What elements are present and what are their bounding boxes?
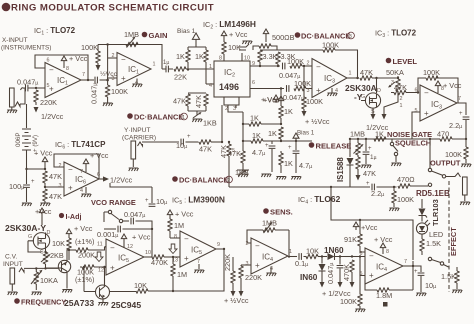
svg-text:91K: 91K	[344, 235, 357, 244]
svg-text:47K: 47K	[49, 172, 62, 181]
svg-text:47K: 47K	[49, 192, 62, 201]
svg-text:10K: 10K	[306, 247, 319, 256]
svg-text:0.047µ: 0.047µ	[283, 93, 304, 102]
resistor 47K col x247	[228, 112, 245, 170]
svg-text:(INSTRUMENTS): (INSTRUMENTS)	[1, 45, 51, 52]
svg-text:1M: 1M	[174, 221, 184, 230]
gain feedback rail	[98, 45, 162, 70]
cap 0.047u line B	[283, 85, 304, 102]
resistor 47K series	[360, 68, 398, 80]
svg-text:IC3 : TLO72: IC3 : TLO72	[375, 29, 417, 40]
ground jack X	[7, 110, 17, 113]
label IC1 TL072	[1, 26, 76, 52]
svg-text:5: 5	[47, 83, 50, 89]
resistor 47K Y series	[199, 140, 222, 154]
wire 200K to pin11	[105, 246, 107, 248]
jack Y-input	[131, 141, 143, 167]
op-amp IC5b	[172, 231, 220, 267]
resistor 100K divider	[103, 85, 128, 106]
svg-text:1KB: 1KB	[235, 168, 249, 177]
resistor 1K v2	[268, 127, 283, 141]
cap 10u Y	[176, 134, 199, 150]
svg-text:−: −	[121, 55, 126, 64]
node 22K/1K	[187, 68, 189, 70]
Vcc arrow 10K top	[221, 30, 248, 39]
wire IC5a out to 470K	[144, 256, 152, 258]
envelope box wire	[331, 187, 413, 260]
flow arrow IC5a	[95, 252, 103, 262]
transistor 2SA733	[46, 250, 71, 289]
resistor 4700 envelope	[397, 175, 432, 188]
capacitor 0.047u interstage	[90, 77, 108, 104]
svg-text:G: G	[361, 94, 365, 100]
svg-text:+: +	[424, 109, 429, 118]
envelope rail y187	[229, 159, 370, 187]
node 1K v2	[280, 140, 282, 142]
svg-text:25C945: 25C945	[111, 300, 141, 310]
Vcc arrow box	[353, 222, 377, 232]
svg-text:+ Vcc: + Vcc	[374, 235, 393, 244]
wire dc2 rail	[110, 183, 152, 187]
svg-text:−: −	[316, 63, 321, 72]
svg-text:1K: 1K	[284, 107, 293, 116]
svg-text:1K: 1K	[176, 52, 185, 61]
cap 4.7u right	[288, 140, 312, 173]
diode IS1588	[347, 138, 354, 187]
cap 0.1u	[295, 253, 308, 268]
svg-text:2: 2	[307, 61, 310, 67]
zener RD5.1EB	[419, 199, 428, 222]
svg-text:VCO RANGE: VCO RANGE	[91, 198, 136, 207]
svg-text:+Vcc: +Vcc	[361, 223, 378, 232]
feedback 100K IC3b	[417, 68, 458, 103]
svg-text:DC·BALANCE: DC·BALANCE	[134, 113, 183, 122]
svg-text:10: 10	[145, 250, 151, 256]
resistor 1.5K LED	[420, 239, 441, 255]
svg-text:+Vcc: +Vcc	[263, 96, 280, 105]
trimmer cap top left of box	[239, 41, 252, 61]
svg-text:1: 1	[182, 115, 185, 121]
gate loop wire	[28, 241, 42, 252]
resistor 100K line A	[287, 57, 312, 68]
svg-text:+: +	[145, 198, 149, 204]
svg-text:100K: 100K	[423, 68, 440, 77]
svg-text:100K: 100K	[397, 195, 414, 204]
cap 0.047 det	[326, 255, 343, 287]
CV input label	[3, 254, 23, 269]
ground 47K	[40, 203, 50, 206]
resistor 1.5K effect	[441, 267, 462, 293]
wire output to IC1b via cap	[81, 79, 94, 81]
svg-text:47K: 47K	[219, 145, 228, 158]
Vcc pin8 IC4b	[374, 235, 393, 255]
svg-text:−: −	[68, 165, 73, 174]
wire to pin3	[108, 78, 117, 80]
svg-text:DC·BALANCE: DC·BALANCE	[179, 176, 228, 185]
svg-text:6: 6	[360, 251, 363, 257]
wire 1M to pin8	[170, 237, 180, 239]
output loop IC5b	[170, 249, 224, 291]
svg-text:2: 2	[227, 178, 230, 184]
resistor 100K envelope load	[389, 186, 414, 211]
resistor 91K	[344, 220, 362, 253]
cap 10u out	[413, 266, 436, 292]
Vcc pin8 IC1a	[61, 54, 88, 68]
Vcc arrow below line B	[261, 95, 280, 104]
bias rail wires	[188, 47, 206, 50]
Vcc arrow VCO left	[35, 207, 52, 225]
ground pin4 IC6	[81, 187, 91, 197]
svg-text:SQUELCH: SQUELCH	[395, 139, 431, 148]
svg-text:IC4 : TLO62: IC4 : TLO62	[298, 194, 341, 206]
resistor 200K	[68, 247, 106, 260]
cap 0.047 range	[123, 210, 153, 224]
svg-text:+: +	[110, 264, 115, 273]
svg-text:8: 8	[219, 56, 222, 62]
ground CV jack	[8, 292, 18, 295]
resistor 100K halfvcc	[302, 65, 324, 117]
switch effect	[413, 257, 449, 267]
svg-text:10K: 10K	[134, 281, 147, 290]
feedback wire IC4a	[247, 230, 289, 255]
Vcc arrow 500B	[263, 29, 294, 42]
svg-text:1M: 1M	[177, 270, 187, 279]
svg-text:100K: 100K	[287, 57, 304, 66]
pot 50KA	[386, 68, 404, 109]
CV wire	[24, 267, 58, 269]
wire pins down from caps	[151, 221, 153, 257]
svg-text:1: 1	[209, 64, 212, 70]
svg-text:2: 2	[112, 53, 115, 59]
output IC3b to cap	[457, 103, 466, 115]
svg-text:+: +	[187, 134, 191, 140]
op-amp IC4b	[360, 248, 408, 284]
svg-text:−: −	[49, 66, 54, 75]
svg-text:LED: LED	[429, 230, 443, 239]
svg-text:1MB: 1MB	[350, 130, 365, 139]
svg-text:IC1 : TLO72: IC1 : TLO72	[34, 26, 76, 37]
svg-text:C.V.: C.V.	[5, 254, 17, 261]
resistor 1K h2	[242, 131, 281, 143]
potentiometer 1MB gain	[124, 30, 139, 48]
svg-text:TLR103: TLR103	[431, 199, 440, 226]
svg-text:IS1588: IS1588	[336, 157, 345, 182]
svg-text:100K: 100K	[294, 79, 311, 88]
svg-text:100K: 100K	[322, 41, 339, 50]
wire 1K v2 to release line	[281, 140, 312, 142]
svg-text:9: 9	[217, 242, 220, 248]
svg-text:1: 1	[289, 249, 292, 255]
svg-text:G: G	[28, 234, 32, 240]
title RING MODULATOR SCHEMATIC CIRCUIT	[2, 3, 214, 14]
svg-text:D: D	[377, 88, 381, 94]
Vcc arrow battery	[34, 149, 53, 170]
svg-text:RELEASE: RELEASE	[316, 142, 352, 151]
feedback wire IC1a	[35, 55, 88, 80]
JFET 2SK30A left	[28, 230, 51, 256]
resistor 470 output	[412, 130, 467, 142]
resistor 10K to box	[222, 39, 241, 61]
svg-text:+: +	[288, 145, 292, 151]
svg-text:+: +	[49, 85, 54, 94]
svg-text:3: 3	[112, 76, 115, 82]
svg-text:+Vcc: +Vcc	[35, 207, 52, 216]
svg-text:0.001µ: 0.001µ	[97, 230, 118, 239]
pin5 wire IC4b	[360, 257, 365, 276]
svg-text:1K: 1K	[284, 159, 293, 168]
svg-text:470K: 470K	[151, 258, 168, 267]
svg-text:1/2Vcc: 1/2Vcc	[110, 176, 133, 185]
resistor 100K det2	[340, 255, 365, 312]
svg-text:47K: 47K	[173, 97, 186, 106]
half Vcc arrow below 100K	[96, 65, 101, 71]
svg-text:+: +	[368, 146, 372, 152]
svg-text:1.8M: 1.8M	[376, 291, 392, 300]
svg-text:470: 470	[437, 130, 449, 139]
svg-text:+ Vcc: + Vcc	[34, 149, 53, 158]
resistor 470K det	[342, 255, 358, 287]
svg-text:50KA: 50KA	[386, 68, 404, 77]
svg-text:12: 12	[98, 268, 104, 274]
resistor 1K bias right	[195, 50, 208, 84]
wire battery to divider	[27, 168, 46, 170]
svg-text:100K: 100K	[81, 43, 98, 52]
Vcc arrow IC5b	[167, 210, 194, 219]
svg-text:0.047µ: 0.047µ	[326, 263, 335, 284]
pot 1MB vertical	[354, 138, 364, 181]
svg-text:+ ½Vcc: + ½Vcc	[305, 117, 330, 126]
wire X input to cap	[20, 88, 25, 104]
svg-text:Y·INPUT: Y·INPUT	[124, 127, 150, 134]
svg-text:100K: 100K	[306, 97, 323, 106]
svg-text:+: +	[316, 86, 321, 95]
svg-text:3: 3	[307, 88, 310, 94]
output IC6 halfvcc	[99, 176, 133, 185]
resistor 47K div bottom	[43, 189, 62, 203]
cap 10u dc2	[145, 187, 167, 206]
diode 1N60 shunt	[319, 257, 326, 288]
svg-text:220K: 220K	[40, 98, 57, 107]
battery 006P	[15, 104, 39, 169]
svg-text:4: 4	[209, 83, 212, 89]
svg-text:IN60: IN60	[300, 273, 318, 282]
resistor 47K to pin6	[391, 83, 418, 95]
Vcc pin8 IC3b	[435, 81, 462, 93]
ground 10u	[416, 293, 426, 296]
svg-text:−: −	[255, 242, 260, 251]
pot 1KB balance	[188, 111, 217, 128]
svg-text:10K: 10K	[52, 239, 65, 248]
pot 2KB	[41, 251, 64, 269]
pot 10KA	[31, 268, 58, 290]
svg-text:(±1%): (±1%)	[75, 275, 94, 284]
cap 2.2u output	[449, 111, 469, 139]
svg-text:−: −	[424, 89, 429, 98]
pot 1MB sens	[251, 219, 289, 234]
ground 10KA	[32, 292, 42, 295]
wire 50KA top	[397, 76, 399, 78]
svg-text:−: −	[369, 252, 374, 261]
node output IC1a	[87, 79, 89, 81]
label LEVEL	[386, 57, 418, 66]
wire IC4a output	[288, 256, 297, 258]
svg-text:0.047µ: 0.047µ	[90, 83, 99, 104]
label 2SK30A-Y right	[345, 83, 377, 102]
ground pin IC3a	[327, 88, 338, 96]
ground caps left	[261, 174, 271, 177]
svg-text:+: +	[31, 179, 35, 185]
svg-text:1K: 1K	[252, 131, 261, 140]
label DC-BALANCE 2	[172, 176, 232, 185]
resistor 100K vco	[75, 265, 106, 285]
op-amp IC4a	[246, 238, 293, 274]
svg-text:GAIN: GAIN	[149, 31, 168, 40]
svg-text:+ Vcc: + Vcc	[175, 210, 194, 219]
flow arrow IC5b	[169, 244, 177, 254]
Vcc pin7 IC6	[83, 151, 109, 172]
resistor 3.3K left	[258, 50, 278, 66]
svg-text:8: 8	[174, 234, 177, 240]
wire node to pin2	[108, 57, 117, 59]
svg-text:1KB: 1KB	[203, 119, 217, 128]
noise gate rail	[350, 138, 412, 140]
svg-text:47K: 47K	[363, 169, 376, 178]
jack output	[463, 177, 468, 201]
cap 0.047u line A	[279, 63, 300, 80]
svg-text:2KB: 2KB	[50, 251, 64, 260]
svg-text:RING MODULATOR SCHEMATIC CI: RING MODULATOR SCHEMATIC CIRCUIT	[11, 3, 214, 14]
svg-text:1µ: 1µ	[370, 154, 377, 161]
small box below IC2	[224, 97, 239, 105]
svg-text:SENS.: SENS.	[270, 208, 293, 217]
label SENS	[263, 208, 293, 217]
svg-text:−: −	[184, 235, 189, 244]
resistor 100K feedback upper	[81, 43, 100, 65]
resistor 22K series	[174, 67, 214, 82]
resistor 1M IC5b	[168, 218, 184, 238]
svg-text:1MB: 1MB	[124, 30, 139, 39]
label NOISE GATE SQUELCH	[387, 130, 432, 148]
svg-text:7: 7	[80, 169, 83, 175]
svg-text:DC·BALANCE: DC·BALANCE	[301, 32, 350, 41]
svg-text:47K: 47K	[394, 83, 407, 92]
resistor 3.3K right	[276, 52, 296, 66]
wire det to pin6	[358, 252, 366, 257]
svg-text:1: 1	[400, 103, 403, 109]
resistor 1.8M feedback	[365, 266, 413, 307]
wire Y to cap	[142, 141, 179, 143]
svg-text:10: 10	[244, 56, 250, 62]
node divider	[44, 186, 46, 188]
cap 2.2u envelope	[366, 181, 397, 198]
svg-text:1.5K: 1.5K	[426, 239, 441, 248]
jack CV	[10, 268, 24, 291]
resistor 220K	[34, 90, 39, 102]
label Y-INPUT CARRIER	[122, 127, 156, 142]
svg-text:2: 2	[400, 96, 403, 102]
wire IC3a out	[347, 77, 359, 79]
down arrows halfvcc	[224, 291, 249, 305]
op-amp IC5a	[97, 239, 151, 275]
svg-text:3.3K: 3.3K	[263, 52, 278, 61]
balance rail with 100K	[260, 41, 359, 80]
output IC4b	[403, 265, 413, 267]
svg-text:+: +	[255, 261, 260, 270]
svg-text:D: D	[47, 230, 51, 236]
op-amp IC6	[59, 162, 101, 196]
wire pin9 line A	[250, 65, 280, 67]
svg-text:2SK30A-Y: 2SK30A-Y	[5, 223, 46, 233]
label FREQUENCY	[14, 298, 66, 307]
Bias 1 symbol	[177, 28, 200, 47]
svg-text:11: 11	[97, 242, 103, 248]
svg-text:1: 1	[349, 71, 352, 77]
ground pin4 IC4a	[266, 267, 276, 277]
resistor 1K squelch	[374, 130, 386, 142]
label GAIN	[142, 31, 168, 40]
feedback wire IC6	[54, 154, 99, 179]
svg-text:1: 1	[153, 62, 156, 68]
svg-text:+: +	[366, 181, 370, 187]
cap 1u squelch	[361, 138, 376, 168]
switch output select	[428, 138, 460, 178]
svg-text:+: +	[414, 269, 418, 275]
switch VCO range	[104, 210, 123, 222]
svg-text:47K: 47K	[199, 145, 212, 154]
ground 100u	[22, 203, 32, 206]
svg-text:12: 12	[127, 244, 133, 250]
resistor 10K vco	[52, 224, 93, 260]
svg-text:500ΩB: 500ΩB	[272, 33, 295, 42]
node 1K v1	[280, 123, 282, 125]
svg-text:Bias 1: Bias 1	[297, 130, 315, 137]
svg-text:1K: 1K	[250, 114, 259, 123]
svg-text:2: 2	[246, 241, 249, 247]
svg-text:+ ½Vcc: + ½Vcc	[224, 296, 249, 305]
svg-text:−: −	[110, 244, 115, 253]
wire pin3 IC4a	[241, 264, 251, 266]
svg-text:5: 5	[415, 108, 418, 114]
svg-text:LEVEL: LEVEL	[393, 57, 418, 66]
wire cap to pin5	[28, 87, 45, 89]
svg-text:FREQUENCY: FREQUENCY	[21, 298, 66, 307]
resistor 47K div top	[43, 171, 62, 187]
svg-text:+: +	[459, 111, 463, 117]
svg-text:3: 3	[246, 261, 249, 267]
resistor 10K fb	[134, 281, 170, 293]
svg-text:1496: 1496	[219, 82, 239, 92]
resistor 47K Y shunt	[219, 141, 235, 159]
capacitor 1u series	[162, 60, 173, 72]
svg-text:+: +	[184, 254, 189, 263]
svg-text:(±1%): (±1%)	[75, 237, 94, 246]
svg-text:(CARRIER): (CARRIER)	[122, 135, 156, 142]
svg-text:EFFECT: EFFECT	[449, 227, 458, 256]
ground 2SC945 emitter	[98, 303, 108, 306]
svg-text:220K: 220K	[245, 273, 262, 282]
svg-text:6: 6	[47, 58, 50, 64]
divider vertical wire	[107, 45, 109, 86]
svg-text:+ Vcc: + Vcc	[132, 233, 151, 242]
cap 0.01 range	[104, 226, 153, 233]
label RELEASE	[309, 142, 352, 151]
svg-text:10KA: 10KA	[40, 276, 58, 285]
capacitor 0.047u input	[17, 78, 38, 92]
svg-text:4: 4	[335, 88, 338, 94]
cap 4.7u left	[252, 141, 275, 172]
resistor 1K h1	[242, 114, 281, 127]
svg-text:8: 8	[66, 66, 69, 72]
